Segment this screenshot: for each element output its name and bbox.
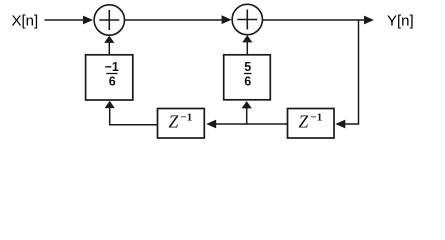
svg-text:Z: Z (299, 112, 309, 132)
svg-text:−1: −1 (181, 112, 193, 124)
plus sign of summer S2 (237, 10, 257, 30)
wire summer S2 to output Y[n] (263, 19, 365, 21)
gain block B1 (5/6) (224, 55, 271, 100)
wire branch up from bottom wire to gain B1 (5/6) (246, 106, 248, 125)
arrowhead into summer S2 (222, 15, 232, 24)
svg-text:X[n]: X[n] (12, 12, 39, 29)
svg-text:Z: Z (169, 112, 179, 132)
svg-text:5: 5 (244, 60, 251, 74)
svg-text:6: 6 (109, 75, 116, 89)
arrowhead into summer S2 bottom (242, 35, 252, 42)
summer S2 (adder circle) (232, 4, 262, 34)
summer S1 (adder circle) (94, 5, 124, 35)
wire input X[n] to summer S1 (45, 19, 85, 21)
arrowhead into delay Z2 (335, 120, 345, 129)
wire gain B1 top to summer S2 (246, 41, 248, 56)
arrowhead into summer S1 bottom (104, 36, 114, 43)
arrowhead into summer S1 (83, 16, 93, 25)
svg-text:−1: −1 (311, 112, 323, 124)
svg-text:−1: −1 (105, 60, 119, 74)
arrowhead into delay Z1 (206, 120, 216, 129)
wire feedback tap vertical from output line down (358, 19, 360, 124)
arrowhead into gain A1 bottom (105, 101, 115, 108)
arrowhead into gain B1 bottom (242, 101, 252, 108)
delay block Z1 (158, 109, 205, 139)
delay block Z2 (288, 109, 335, 139)
wire summer S1 to summer S2 (125, 19, 223, 21)
svg-text:Y[n]: Y[n] (387, 12, 414, 29)
wire feedback horizontal into delay Z2 (343, 123, 359, 125)
plus sign of summer S1 (99, 10, 119, 30)
arrowhead at output Y[n] (364, 16, 374, 25)
wire gain A1 top to summer S1 (108, 41, 110, 56)
gain block A1 (-1/6) (86, 55, 133, 100)
svg-text:6: 6 (244, 75, 251, 89)
wire delay Z1 output left then up to gain A1 (-1/6) (110, 106, 158, 125)
wire delay Z2 output to delay Z1 (215, 123, 288, 125)
